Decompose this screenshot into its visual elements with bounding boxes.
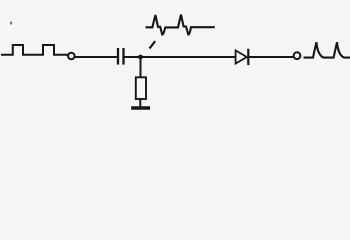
wire input terminal to capacitor [76, 56, 117, 58]
output waveform (positive spikes) [305, 42, 350, 57]
capacitor [118, 49, 124, 63]
resistor [136, 77, 146, 99]
node junction [138, 55, 143, 60]
differentiated waveform annotation (spikes above capacitor) [147, 15, 214, 35]
input terminal [68, 53, 75, 60]
wire diode to output terminal [250, 56, 293, 58]
output terminal [294, 52, 301, 59]
wire junction to resistor [140, 58, 142, 77]
wire resistor to ground [139, 100, 141, 107]
input square-wave symbol [2, 45, 67, 55]
pointer slash from junction to annotation [150, 42, 154, 48]
wire capacitor to diode [125, 56, 235, 58]
diode [236, 50, 249, 64]
paper speck [10, 21, 12, 24]
ground [133, 106, 148, 110]
